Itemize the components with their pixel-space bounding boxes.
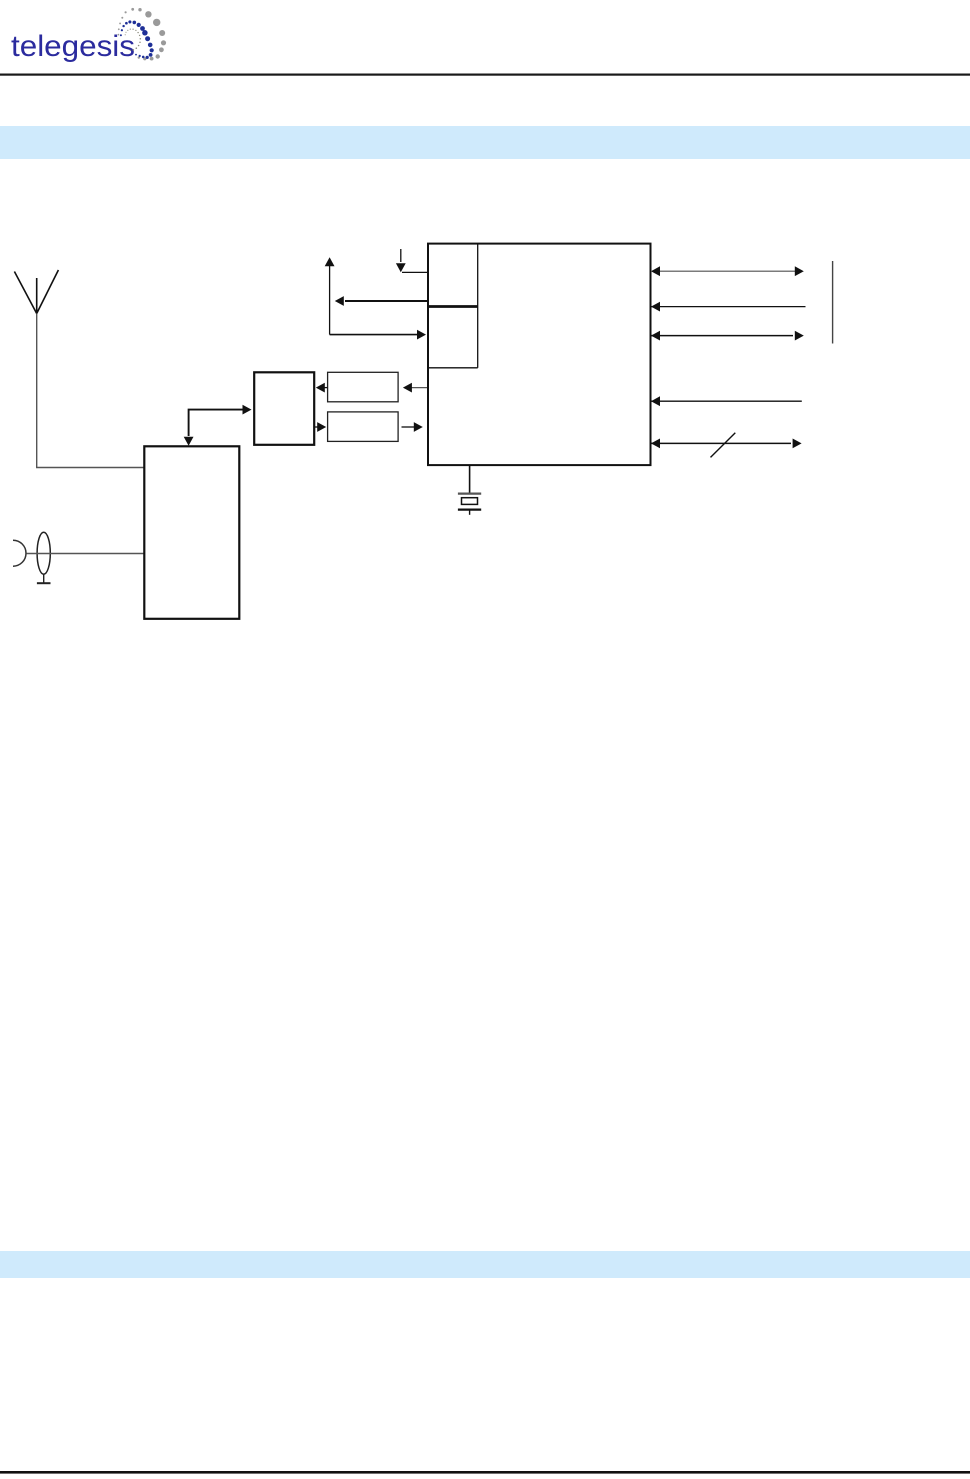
arrow: RX filter to balun [316, 383, 328, 393]
coax connector J1 [13, 532, 51, 583]
arrow: I/O bus 5 (bidirectional, with bus slash) [651, 433, 802, 458]
block: RF front-end [144, 446, 239, 619]
sub-block divider: thick separator [428, 305, 478, 308]
arrow: SoC to left (reset line) [335, 296, 428, 306]
header rule [0, 74, 970, 76]
arrow: I/O bus 1 (bidirectional) [651, 266, 804, 276]
block: ZigBee SoC U1 [428, 244, 651, 466]
footer rule [0, 1471, 970, 1474]
crystal X1 [458, 465, 481, 515]
arrow: I/O line 2 (into SoC) [651, 302, 806, 312]
section heading band (bottom) [0, 1251, 970, 1278]
arrow: I/O bus 3 (bidirectional) [651, 331, 804, 341]
section heading band (top) [0, 126, 970, 159]
arrow: I/O line 4 (into SoC) [651, 396, 802, 406]
logo dot spiral [118, 8, 167, 61]
wire: antenna feed to front-end block [36, 467, 145, 469]
arrow: supply input into SoC top-left [396, 249, 428, 272]
sub-block divider: internal column bottom edge [428, 367, 478, 369]
arrow: SoC to RX filter [403, 383, 428, 393]
sub-block divider: internal column right edge [477, 244, 479, 368]
arrow: SoC output, up then elbow (up head + right head) [325, 257, 426, 339]
block: balun [254, 372, 314, 445]
antenna ANT1 [14, 270, 58, 468]
block: RX path filter [328, 372, 399, 402]
arrow: front-end to balun (L-shaped, two heads) [184, 405, 252, 446]
block: TX path filter [328, 412, 399, 442]
arrow: balun to TX filter [315, 422, 327, 432]
net marker: vertical bar right of I/O bus group [832, 261, 834, 344]
wire: connector feed to front-end block [27, 553, 146, 555]
svg-text:telegesis: telegesis [11, 30, 135, 63]
arrow: TX filter to SoC [402, 422, 423, 432]
